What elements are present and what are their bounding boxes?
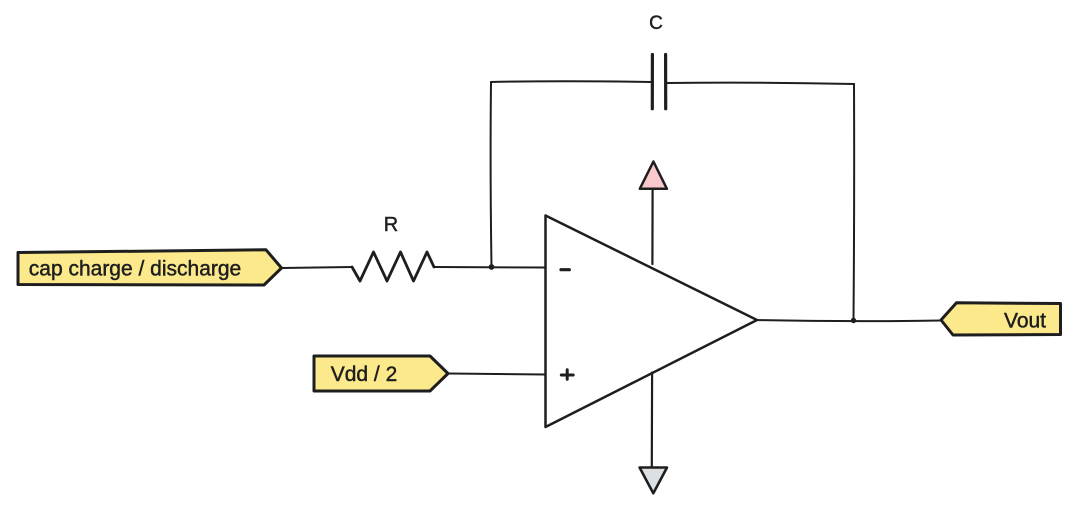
ground triangle [640,468,667,494]
svg-text:R: R [384,214,398,236]
wire resistor to inverting input [434,266,546,269]
io label box: Vout [941,303,1061,335]
wire Vdd/2 to non-inverting input [448,374,546,375]
wire input lead [282,267,353,268]
op-amp non-inverting input plus sign [561,370,573,380]
svg-text:cap charge / discharge: cap charge / discharge [29,258,241,281]
vcc supply triangle [640,162,667,189]
resistor R1 [352,252,434,281]
op-amp inverting input minus sign [561,268,569,271]
capacitor C1 [652,55,665,109]
node junction at output [851,318,856,323]
power rail wire from op-amp bottom edge to ground [651,373,653,468]
wire op-amp output [757,320,941,321]
svg-text:Vout: Vout [1004,310,1046,333]
wire feedback top-left horizontal [491,80,651,83]
io label box: cap charge / discharge [18,250,282,285]
op-amp U1 triangle [546,216,758,428]
node junction at inverting input [489,264,495,270]
wire feedback right vertical [853,84,856,321]
svg-text:Vdd / 2: Vdd / 2 [331,363,398,386]
wire feedback top-right horizontal [667,83,855,84]
wire feedback left vertical [490,82,493,267]
power rail wire from vcc to op-amp top edge [651,190,653,264]
io label box: Vdd / 2 [314,356,448,391]
svg-text:C: C [649,13,663,34]
